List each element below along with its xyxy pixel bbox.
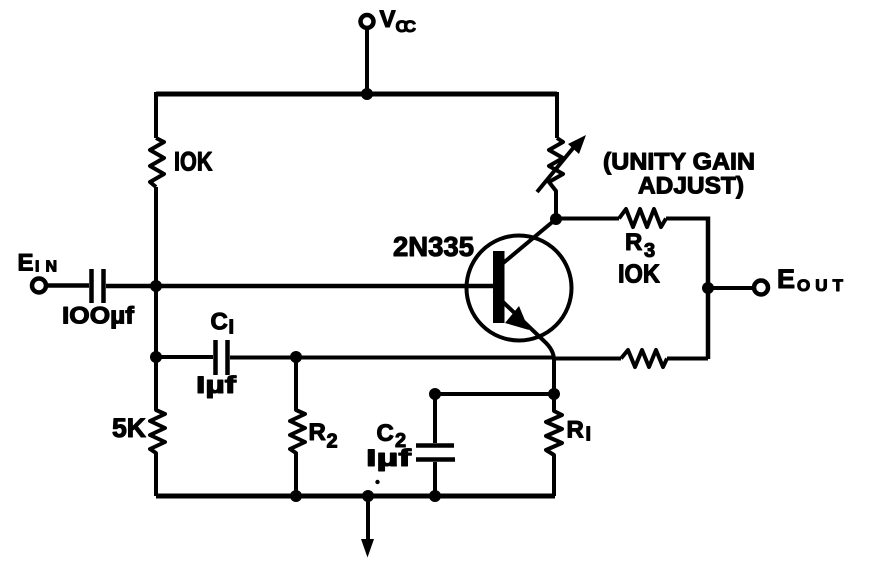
label C2 [377,420,407,452]
label R1 [567,417,592,446]
wire collector to R3 [556,217,619,221]
svg-text:R: R [309,419,326,446]
node R2 bottom junction [290,490,302,502]
ground arrow [361,496,374,558]
wire C1 row to emitter [230,356,553,360]
label 100uf [62,303,135,330]
label 10K of R3 [618,259,660,289]
label 5K [112,413,146,443]
wire emitter down [552,359,556,394]
resistor R2 [290,357,305,496]
speck above ground junction [375,480,379,484]
svg-text:2N335: 2N335 [393,231,474,262]
variable resistor arrow [537,135,586,192]
wire left branch to input node [154,187,158,286]
wire Vcc stub [365,28,369,94]
svg-text:IOK: IOK [174,147,213,177]
label 2N335 [393,231,474,262]
wire R3 to right corner [666,217,708,221]
resistor 5K [150,357,165,496]
terminal Vcc [361,15,374,28]
label E_OUT [777,264,844,295]
svg-text:R: R [625,229,642,256]
node input junction [150,280,162,292]
variable resistor (unity gain adjust) zigzag [549,138,563,219]
label R2 [309,419,338,453]
node collector junction [550,213,562,225]
terminal E_OUT [754,281,768,295]
transistor collector lead [502,219,556,264]
resistor feedback [621,350,667,367]
resistor R1 [546,394,562,496]
capacitor C1 [216,340,228,375]
wire C2 to R1 top [435,392,554,396]
label C1 [211,309,235,339]
svg-text:IOOµf: IOOµf [62,303,135,330]
transistor emitter lead [503,302,554,360]
resistor 10K (collector load) [150,138,164,187]
label Vcc [380,6,417,36]
node E_OUT junction [702,282,714,294]
label unity gain adjust [603,149,755,200]
label 10K [174,147,213,177]
node C2 bottom junction [429,490,441,502]
wire to E_OUT terminal [708,286,754,290]
wire left branch input node to C1 row [154,286,158,357]
capacitor C2 [416,394,455,496]
svg-text:E: E [18,250,34,277]
svg-text:V: V [380,6,396,33]
svg-text:OUT: OUT [797,276,844,295]
wire input row to base [106,284,493,289]
svg-text:C: C [211,309,228,336]
wire collector branch top [555,92,559,138]
svg-text:C: C [377,420,394,447]
svg-text:IOK: IOK [618,259,660,289]
wire left branch upper [154,92,158,138]
wire E_IN to C100 [46,283,89,288]
svg-text:E: E [777,264,795,294]
svg-text:R: R [567,417,584,444]
svg-text:I: I [586,424,592,446]
label 1uf of C1 [196,372,237,399]
node junction Vcc on rail [361,88,373,100]
svg-text:ADJUST): ADJUST) [638,173,744,200]
node R1 top junction [548,388,560,400]
svg-text:2: 2 [327,431,338,453]
resistor R3 [619,209,666,227]
wire top supply rail [156,92,557,97]
label E_IN [18,250,58,277]
node R2 top junction [290,351,302,363]
node ground junction [362,490,374,502]
svg-text:CC: CC [396,17,417,36]
svg-text:5K: 5K [112,413,146,443]
svg-text:I: I [229,317,235,339]
svg-text:IN: IN [35,259,57,276]
wire feedback row [553,357,621,361]
svg-text:Iµf: Iµf [196,372,237,399]
node C1 row left junction [150,351,162,363]
transistor emitter arrowhead [505,306,529,330]
transistor base bar [493,251,505,323]
svg-text:(UNITY GAIN: (UNITY GAIN [603,149,755,176]
node C2 top junction [429,388,441,400]
svg-text:Iµf: Iµf [366,445,413,472]
label 1uf of C2 [366,445,413,472]
terminal E_IN [32,279,46,293]
wire bottom ground rail [156,494,555,499]
capacitor 100uf [92,269,104,303]
wire feedback to right corner [667,357,708,361]
label R3 [625,229,655,262]
wire C1 row left [156,355,213,359]
wire right vertical branch [706,217,711,360]
transistor Q1 2N335 circle [467,236,572,341]
